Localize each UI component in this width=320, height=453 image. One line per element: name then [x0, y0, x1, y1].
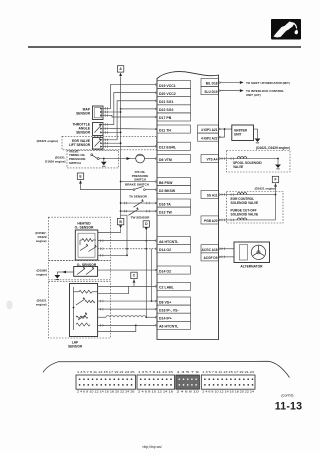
wire: D12 EGRL from EGR lift sensor	[109, 145, 155, 147]
wire: LAF VS+ to D8	[98, 300, 156, 302]
wire: O2 common to ground bus	[98, 254, 127, 256]
svg-text:(D1621 engine): (D1621 engine)	[255, 186, 276, 190]
dashed box: EGR / purge solenoid valves (D1621 engine)	[227, 192, 284, 224]
svg-text:(D1621, D1629 engine): (D1621, D1629 engine)	[256, 146, 290, 150]
vertical wire from connector D down to LAF circuits	[145, 231, 147, 318]
svg-text:SWITCH: SWITCH	[69, 161, 81, 165]
sensor ground bus wire to connector A	[120, 76, 122, 211]
svg-text:UNIT: UNIT	[234, 133, 241, 137]
pin cell VTS A4	[201, 155, 219, 163]
wire: P/S switch to D6 VTM	[145, 158, 156, 160]
igniter unit	[232, 125, 254, 141]
connector ref box F	[272, 176, 278, 182]
wire: O2 sensor to D14 O2	[98, 269, 156, 271]
svg-text:SS A11: SS A11	[207, 194, 218, 198]
svg-text:O₂ SENSOR: O₂ SENSOR	[75, 225, 94, 229]
pin cell D6 VTM	[157, 155, 191, 163]
pin cell A6 HTCNTL	[157, 321, 191, 329]
svg-text:VTS A4: VTS A4	[206, 158, 217, 162]
O2 sensor unit	[74, 267, 98, 277]
pin cell 4 IGP1 A21	[198, 125, 219, 133]
EGR control solenoid coil L2	[237, 193, 247, 195]
svg-text:engine): engine)	[36, 239, 47, 243]
vertical link wire	[151, 249, 153, 301]
pin cell A6 HTCNTL	[157, 237, 191, 245]
wire: heater to A6 HTCNTL	[98, 240, 156, 242]
svg-text:E: E	[79, 174, 82, 178]
throttle sensor pin wire y=128.6	[103, 128, 109, 130]
svg-text:ACGC A18: ACGC A18	[202, 248, 218, 252]
P/S oil pressure switch S2	[136, 154, 145, 163]
wires: IGP1/IGP2 to igniter unit	[220, 128, 232, 130]
wire (dashed): O2 signal to D14 O2	[98, 248, 156, 250]
svg-text:D19 VCC1: D19 VCC1	[159, 84, 176, 88]
LAF sensor unit	[70, 284, 98, 337]
O2 sensing element	[80, 246, 88, 251]
wire: LAF IP-/VS- to D18	[98, 308, 156, 310]
pin cell D14 IP+	[157, 313, 191, 321]
pin cell D13 TW	[157, 207, 191, 215]
svg-text:D20 VCC2: D20 VCC2	[159, 92, 176, 96]
wire: D22 SG2 to sensor-ground bus	[121, 108, 156, 110]
MAP pin wire y=108.5	[103, 108, 109, 110]
pin cell PGB A20	[201, 216, 219, 224]
TW sensor (coolant temperature)	[120, 210, 122, 212]
ECM (engine control module) main box U1	[157, 72, 219, 340]
svg-text:TA SENSOR: TA SENSOR	[129, 195, 147, 199]
brake switch S3	[133, 189, 135, 191]
svg-text:11-13: 11-13	[275, 400, 303, 412]
svg-text:D1629 engine): D1629 engine)	[45, 160, 65, 164]
svg-text:4 IGP1 A21: 4 IGP1 A21	[201, 128, 218, 132]
svg-text:UNIT (A/T): UNIT (A/T)	[246, 93, 261, 97]
svg-text:SOLENOID VALVE: SOLENOID VALVE	[231, 213, 259, 217]
pin cell D11 TH	[157, 125, 191, 133]
svg-text:1 3 5 7 9: 1 3 5 7 9	[177, 371, 201, 374]
pin cell D18 IP-, VS-	[157, 305, 191, 313]
ground bus jog below TW sensor	[121, 211, 127, 255]
svg-text:VALVE: VALVE	[233, 165, 243, 169]
pin cell D14 O2	[157, 245, 191, 253]
pin cell BIL D18	[201, 79, 219, 87]
dashed box: heated O2 sensor (D15B7, D1629 engine)	[48, 217, 110, 260]
pin cell D12 EGRL	[157, 142, 191, 150]
svg-text:2 4 6 8 10 12 14 16: 2 4 6 8 10 12 14 16	[138, 391, 174, 394]
throttle angle sensor	[93, 123, 104, 136]
svg-text:1 3 5 7 9 11 13 15 17 19 21 23: 1 3 5 7 9 11 13 15 17 19 21 23 25	[77, 371, 136, 374]
pin cell D8 VS+	[157, 297, 191, 305]
svg-text:SENSOR: SENSOR	[68, 344, 83, 348]
pin cell SS A11	[201, 191, 219, 199]
scan artifact	[6, 301, 12, 310]
pin cell B6 PSW	[157, 178, 191, 186]
spool solenoid coil L1	[237, 157, 247, 159]
svg-text:D13 TW: D13 TW	[159, 210, 173, 214]
connector ref box C	[131, 272, 137, 278]
svg-text:D21 SG1: D21 SG1	[159, 100, 173, 104]
ECM connector B	[137, 375, 175, 389]
svg-text:B: B	[119, 220, 122, 224]
MAP pin wire y=112	[103, 111, 109, 113]
EGR valve lift sensor	[93, 138, 104, 150]
svg-text:1 3 5 7 9 11 13 15 17 19 21 23: 1 3 5 7 9 11 13 15 17 19 21 23	[202, 371, 255, 374]
connector ref box D	[143, 221, 149, 227]
igniter ground	[254, 129, 258, 138]
svg-text:(cont'd): (cont'd)	[281, 393, 293, 397]
wire: bus to B6 PSW	[120, 181, 122, 183]
pin cell D17 PB	[157, 113, 191, 121]
dashed box: EGR valve lift sensor (D1621 engine)	[62, 136, 157, 150]
svg-text:D17 PB: D17 PB	[159, 116, 172, 120]
pin cell SLU D19	[201, 87, 219, 95]
svg-text:A: A	[119, 67, 122, 71]
wire (twisted): LAF IP+ to D14	[98, 316, 106, 318]
svg-text:A6 HTCNTL: A6 HTCNTL	[159, 240, 179, 244]
dashed box: valve timing oil pressure switch (D1621, D1629 engine)	[67, 150, 119, 168]
svg-text:LIFT SENSOR: LIFT SENSOR	[69, 143, 91, 147]
svg-text:D6 VTM: D6 VTM	[159, 158, 172, 162]
wire: D17 PB from MAP sensor	[109, 116, 155, 118]
svg-text:ALTERNATOR: ALTERNATOR	[240, 265, 263, 269]
svg-text:4 IGP2 A22: 4 IGP2 A22	[201, 136, 218, 140]
svg-text:2 4 6 8 10 12 14 16 18 20 22 2: 2 4 6 8 10 12 14 16 18 20 22 24	[202, 391, 255, 394]
wire: D19 VCC1 to MAP sensor	[109, 85, 155, 109]
svg-text:engine): engine)	[36, 272, 47, 276]
LAF sensing cell 2	[78, 314, 87, 320]
svg-text:D11 TH: D11 TH	[159, 128, 171, 132]
pin cell C2 LABL	[157, 282, 191, 290]
svg-text:D14 O2: D14 O2	[159, 248, 171, 252]
svg-text:SOLENOID VALVE: SOLENOID VALVE	[231, 201, 259, 205]
svg-text:SLU D19: SLU D19	[204, 90, 217, 94]
wire: LAF heater to A6 HTCNTL	[98, 324, 156, 326]
fuel system chapter icon	[271, 19, 301, 40]
LAF sensing cell 1	[76, 299, 85, 305]
svg-text:C2 LABL: C2 LABL	[159, 286, 175, 290]
junction: MAP ground to bus	[109, 111, 120, 113]
wire: D11 TH from throttle sensor	[109, 128, 155, 130]
svg-text:TO SHIFT UP INDICATOR (M/T): TO SHIFT UP INDICATOR (M/T)	[246, 81, 290, 85]
svg-text:SENSOR: SENSOR	[76, 131, 91, 135]
harness cable line above connectors	[43, 361, 290, 377]
svg-text:D22 SG2: D22 SG2	[159, 108, 173, 112]
connector ref box E (brake switch feed)	[77, 173, 83, 179]
LAF heater resistor	[79, 290, 92, 293]
ECM connector C (shaded)	[176, 375, 200, 389]
svg-text:SENSOR: SENSOR	[76, 112, 91, 116]
pin cell D2 BKSW	[157, 186, 191, 194]
svg-text:D: D	[145, 222, 148, 226]
ECM connector D	[201, 375, 255, 389]
svg-text:PGB A20: PGB A20	[204, 219, 218, 223]
pin cell 4 IGP2 A22	[198, 133, 219, 141]
pin cell D14 O2	[157, 266, 191, 274]
ECM connector A	[76, 375, 136, 389]
valve timing oil pressure switch S1	[91, 154, 93, 156]
svg-text:D14 IP+: D14 IP+	[159, 317, 172, 321]
svg-text:(D1621 engine): (D1621 engine)	[37, 139, 58, 143]
purge cut-off solenoid coil L3	[237, 218, 247, 220]
throttle sensor pin wire y=124.5	[103, 124, 109, 126]
svg-text:BRAKE SWITCH: BRAKE SWITCH	[125, 182, 150, 186]
svg-text:D2 BKSW: D2 BKSW	[159, 189, 176, 193]
dashed box: LAF sensor (D1621 engine)	[48, 282, 110, 338]
wire: LAF heater return joins HTCNTL	[98, 325, 136, 331]
svg-text:nttp;//tnp.ws/: nttp;//tnp.ws/	[143, 445, 162, 449]
wire: PGB A20 to purge cut-off solenoid	[220, 219, 276, 221]
throttle sensor pin wire y=132.4	[103, 131, 109, 133]
pin cell ACGC A18	[201, 245, 219, 253]
svg-text:TW SENSOR: TW SENSOR	[131, 215, 151, 219]
heated O2 sensor unit	[75, 230, 98, 260]
pin cell D22 SG2	[157, 105, 191, 113]
wire: SS A11 to EGR control solenoid	[220, 194, 276, 196]
MAP sensor	[93, 106, 104, 120]
pin cell D16 TA	[157, 199, 191, 207]
svg-text:A6 HTCNTL: A6 HTCNTL	[159, 325, 179, 329]
dashed box: O2 sensor (D15B6 engine)	[48, 260, 110, 279]
EGR lift sensor pin wire y=146.6	[103, 146, 109, 148]
svg-text:D8 VS+: D8 VS+	[159, 300, 171, 304]
EGR lift sensor pin wire y=139.8	[103, 139, 109, 141]
svg-text:BIL D18: BIL D18	[206, 82, 218, 86]
connector ref box A	[117, 66, 123, 72]
junction: EGR ground to bus	[109, 142, 120, 144]
pin cell ACGF D9	[201, 253, 219, 261]
svg-text:1 3 5 7 9 11 13 15: 1 3 5 7 9 11 13 15	[138, 371, 174, 374]
svg-text:B6 PSW: B6 PSW	[159, 181, 173, 185]
wire: O2 sensor ground	[57, 272, 73, 275]
wire: brake switch to D2 BKSW	[81, 184, 134, 190]
wire: LAF to C2 LABL with connector C tap	[98, 285, 156, 287]
connector ref box B on heated O2 stub	[120, 215, 122, 218]
EGR lift sensor pin wire y=143.2	[103, 142, 109, 144]
pin cell D19 VCC1	[157, 81, 191, 89]
wire: VT switch to P/S switch to ECM D6 VTM	[99, 158, 135, 160]
wire: SLU D19 to interlock control unit	[220, 90, 240, 92]
pin cell D21 SG1	[157, 97, 191, 105]
svg-text:C: C	[133, 274, 136, 278]
wire: D20 VCC2 to throttle sensor	[109, 93, 155, 125]
wires: ACGC/ACGF to alternator	[220, 248, 234, 250]
svg-text:D16 TA: D16 TA	[159, 202, 171, 206]
svg-text:2 4 6 8 10 12 14 16 18 20 22 2: 2 4 6 8 10 12 14 16 18 20 22 24 26	[77, 391, 136, 394]
alternator G1	[234, 242, 270, 263]
junction: throttle ground to bus	[109, 131, 120, 133]
svg-text:D12 EGRL: D12 EGRL	[159, 146, 177, 150]
svg-text:F: F	[274, 178, 276, 182]
svg-text:SWITCH: SWITCH	[134, 177, 146, 181]
wire: VTS A4 to spool solenoid	[220, 158, 278, 160]
heater element resistor	[82, 239, 93, 242]
svg-text:D18 IP-, VS-: D18 IP-, VS-	[159, 308, 179, 312]
power feed wire from F	[275, 183, 277, 220]
svg-text:2 4 6 8 10: 2 4 6 8 10	[177, 391, 201, 394]
MAP pin wire y=115.5	[103, 115, 109, 117]
svg-text:D14 O2: D14 O2	[159, 269, 171, 273]
wire: D21 SG1 to EGR lift sensor	[109, 101, 155, 140]
header rule	[28, 46, 301, 48]
pin cell D20 VCC2	[157, 89, 191, 97]
wire: BIL D18 to shift up indicator	[220, 82, 240, 84]
svg-text:ACGF D9: ACGF D9	[204, 256, 218, 260]
svg-text:engine): engine)	[36, 302, 47, 306]
LAF heater 2	[76, 323, 90, 326]
